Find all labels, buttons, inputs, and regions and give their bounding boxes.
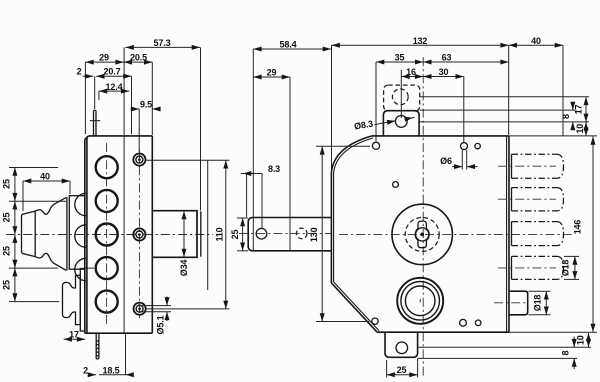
body outline — [331, 136, 509, 332]
bottom tab — [385, 332, 418, 357]
svg-text:18.5: 18.5 — [103, 365, 120, 375]
dim 29 (middle) — [253, 77, 290, 251]
svg-text:20.7: 20.7 — [104, 67, 121, 77]
dim 130 — [316, 146, 370, 321]
pump cylinder circles — [397, 278, 443, 324]
dim 8 bottom right — [573, 337, 575, 370]
dim 17 top right — [585, 97, 587, 122]
locking rod top — [90, 110, 101, 136]
lock edge plate (side view) — [85, 136, 153, 333]
svg-text:17: 17 — [574, 105, 584, 115]
bracket center line — [239, 233, 332, 235]
svg-text:25: 25 — [2, 246, 12, 256]
svg-text:8.3: 8.3 — [268, 164, 280, 174]
phantom tab (dashed) — [384, 85, 420, 111]
dim 57.3 — [124, 47, 200, 210]
dim 17 thumbturn — [64, 338, 86, 340]
dim 9.5 — [131, 109, 161, 152]
svg-text:Ø18: Ø18 — [561, 260, 571, 277]
auxiliary solid bolt — [509, 291, 528, 315]
svg-text:Ø6: Ø6 — [440, 156, 452, 166]
svg-text:Ø34: Ø34 — [179, 260, 189, 277]
holes bottom-right pair — [460, 319, 467, 326]
holes top-right pair — [461, 143, 468, 150]
dim 35 — [376, 62, 423, 141]
bolt 2 (phantom) — [512, 188, 564, 211]
dim 30 — [423, 77, 464, 143]
dim 146 — [509, 136, 597, 332]
cylinder pitch dashed circle — [405, 217, 439, 251]
dim Ø18 bolt4 — [564, 256, 579, 279]
svg-text:2: 2 — [83, 365, 88, 375]
dim 16 — [401, 70, 423, 118]
vertical center line of cylinder — [422, 57, 424, 377]
svg-text:29: 29 — [267, 68, 277, 78]
svg-text:20.5: 20.5 — [130, 52, 147, 62]
key profile — [415, 221, 429, 248]
dim 58.4 — [253, 49, 331, 251]
svg-text:2: 2 — [77, 67, 82, 77]
projection line — [207, 160, 209, 290]
screw bottom-left — [372, 318, 378, 324]
svg-text:25: 25 — [2, 179, 12, 189]
dim 2 / 18.5 bottom — [89, 334, 134, 375]
top tab — [383, 111, 419, 136]
svg-text:40: 40 — [531, 36, 541, 46]
svg-text:10: 10 — [575, 124, 585, 134]
svg-text:30: 30 — [439, 67, 449, 77]
svg-text:35: 35 — [395, 52, 405, 62]
svg-text:132: 132 — [413, 36, 428, 46]
cylinder Ø34 side view — [152, 211, 201, 258]
dim 20.7 — [96, 76, 131, 134]
dim 20.5 — [124, 62, 153, 135]
dim 40 (bolt throw) — [509, 45, 563, 135]
bracket phantom hole — [296, 228, 307, 239]
dim Ø6 — [452, 150, 478, 170]
thumbturn profile — [63, 269, 85, 332]
hole upper-middle — [393, 182, 399, 188]
chain dim 25x4 — [9, 168, 94, 302]
svg-text:8: 8 — [561, 350, 571, 355]
svg-text:58.4: 58.4 — [280, 40, 297, 50]
bolt 4 (phantom) — [512, 256, 564, 279]
plate center line (circles) — [106, 143, 108, 327]
svg-text:29: 29 — [99, 52, 109, 62]
dim 12.4 — [99, 91, 129, 100]
svg-text:63: 63 — [442, 52, 452, 62]
tab hole Ø8.3 — [395, 116, 407, 128]
svg-text:25: 25 — [2, 213, 12, 223]
svg-text:25: 25 — [230, 230, 240, 240]
pump center tick — [419, 299, 421, 302]
svg-text:130: 130 — [309, 227, 319, 242]
svg-text:110: 110 — [215, 227, 225, 241]
dim 63 — [423, 61, 509, 63]
case inner edge — [123, 136, 125, 333]
dim 8.3 (bracket hole offset) — [241, 174, 262, 230]
dim 2 rod — [83, 76, 95, 109]
knob profile — [22, 196, 85, 271]
strike plate lines bottom — [418, 347, 591, 358]
bracket hole — [256, 228, 267, 239]
bracket outline — [248, 218, 331, 251]
svg-text:9.5: 9.5 — [140, 99, 152, 109]
bolt 1 (phantom) — [512, 154, 564, 178]
bolt hole circles (5) — [96, 156, 118, 312]
dim 29 left — [85, 62, 123, 134]
rosette scallop bumps — [75, 193, 86, 280]
screws center line — [138, 149, 140, 320]
dim 25 bracket — [237, 218, 248, 251]
bolt 3 (phantom) — [512, 222, 564, 246]
cylinder circle — [392, 204, 452, 264]
dim Ø5.1 — [140, 297, 171, 322]
dim 10 bottom right — [588, 333, 590, 347]
dim 10 top right — [585, 122, 587, 136]
svg-text:17: 17 — [69, 330, 79, 340]
svg-text:10: 10 — [576, 335, 586, 345]
dim 132 — [332, 45, 509, 170]
dim Ø34 arrows — [183, 211, 185, 257]
locking rod bottom (threaded tip) — [96, 333, 100, 359]
dim 110 — [146, 160, 230, 309]
dim 40 knob — [23, 181, 70, 211]
svg-text:57.3: 57.3 — [154, 38, 171, 48]
dim 8 top right — [572, 103, 574, 129]
svg-text:Ø18: Ø18 — [533, 295, 543, 312]
horizontal center line (knob/plate/cylinder axis) — [6, 234, 213, 236]
svg-text:12.4: 12.4 — [106, 82, 123, 92]
bottom tab hole — [396, 342, 408, 354]
svg-text:16: 16 — [406, 67, 416, 77]
dim Ø18 solid bolt — [529, 291, 551, 315]
svg-text:146: 146 — [573, 220, 583, 235]
svg-text:Ø5.1: Ø5.1 — [156, 315, 166, 334]
main horizontal center line — [339, 233, 572, 235]
screws (3) — [133, 154, 145, 315]
screw top-left — [372, 142, 379, 149]
svg-text:25: 25 — [2, 280, 12, 290]
phantom hole — [392, 89, 408, 105]
svg-text:8: 8 — [561, 114, 571, 119]
svg-text:40: 40 — [40, 171, 50, 181]
projection rows from tab to right dims — [420, 97, 590, 122]
svg-text:25: 25 — [397, 365, 407, 375]
dim 25 bottom tab — [387, 359, 418, 378]
